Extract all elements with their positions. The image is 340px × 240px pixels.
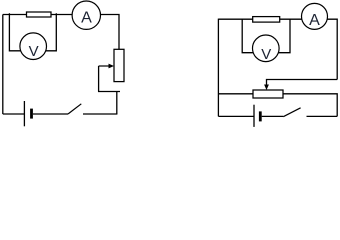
svg-text:A: A — [309, 12, 320, 29]
wire: resistor R3 to ammeter A2 — [280, 18, 302, 20]
battery BT1 — [24, 101, 31, 126]
wire: ammeter A2 right, down to wiper wire of rheostat R4 — [327, 19, 337, 79]
wire: switch S1 to bottom-right corner — [83, 113, 117, 115]
wire: top-left segment to resistor R1 — [3, 14, 27, 16]
svg-text:V: V — [261, 46, 271, 63]
wire: resistor R1 to ammeter A1 — [51, 14, 72, 16]
rheostat R2 (vertical track) — [114, 49, 124, 81]
voltmeter V1 — [20, 33, 47, 60]
rheostat R4 (horizontal track) — [253, 90, 283, 98]
ammeter A1 — [72, 1, 100, 29]
wire: voltmeter V2 right bracket up to top wire — [278, 19, 290, 53]
wire: middle wire, left vertical to rheostat R4 left terminal — [218, 93, 253, 95]
wire: voltmeter V1 left branch — [9, 13, 21, 51]
wire: bottom-left segment to battery BT2 — [218, 115, 254, 117]
wire: top-left segment to resistor R3 — [218, 18, 252, 20]
wire: wiper feed wire to arrow over rheostat R4 — [267, 80, 338, 86]
wire: battery BT1 to switch S1 — [33, 113, 68, 115]
resistor R1 — [27, 12, 52, 17]
resistor R3 — [253, 17, 280, 23]
svg-text:V: V — [29, 43, 39, 60]
switch S2 (open lever) — [283, 108, 300, 117]
wire: left vertical — [2, 15, 4, 115]
wire: left vertical — [217, 19, 219, 117]
wire: battery BT2 to switch S2 — [262, 115, 284, 117]
wire: ammeter A1 to top-right corner, down to rheostat R2 top terminal — [101, 15, 120, 50]
battery BT2 — [254, 105, 260, 127]
svg-text:A: A — [81, 10, 92, 27]
voltmeter V2 — [252, 35, 279, 63]
switch S1 (open lever) — [68, 104, 81, 114]
wire: rheostat R4 right terminal to right edge, down to bottom wire — [283, 94, 337, 117]
wire: voltmeter V2 left bracket — [242, 19, 253, 53]
ammeter A2 — [302, 3, 328, 29]
wire: bottom-left segment to battery BT1 — [3, 113, 25, 115]
rheostat R2 wiper arrow — [99, 64, 114, 69]
wire: voltmeter V1 right branch up to top wire — [46, 13, 57, 51]
wire: wiper return (down, right, down to bottom wire) — [98, 66, 120, 114]
rheostat R4 wiper arrow (pointing down) — [264, 85, 269, 91]
wire: switch S2 to bottom-right corner — [307, 115, 338, 117]
